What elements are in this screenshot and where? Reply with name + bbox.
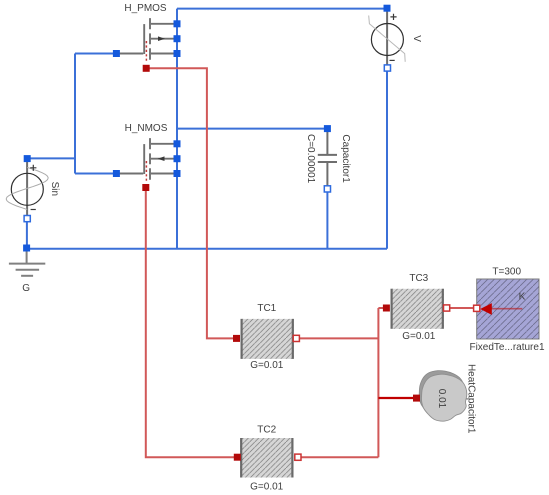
node sin minus pin (open): [24, 216, 30, 222]
node sin plus pin: [24, 155, 31, 162]
fixed temperature FixedTemperature1: [469, 267, 544, 353]
svg-text:FixedTe...rature1: FixedTe...rature1: [469, 342, 544, 353]
node nmos source pin: [174, 170, 181, 177]
wire TC2 out: [301, 456, 379, 458]
svg-text:V: V: [411, 35, 422, 42]
v ramp line: [369, 16, 406, 62]
pmos heat dashed line: [145, 41, 147, 63]
wire pmos heat to TC1: [146, 68, 234, 338]
thermal conductor TC1: [241, 303, 294, 371]
nmos heat dashed line: [145, 161, 147, 183]
svg-text:HeatCapacitor1: HeatCapacitor1: [465, 364, 476, 434]
node nmos drain pin: [174, 140, 181, 147]
wire to pmos gate: [75, 53, 114, 55]
svg-text:G=0.01: G=0.01: [402, 331, 436, 342]
sin plus sign: [30, 165, 36, 171]
wire capacitor branch: [177, 128, 327, 130]
node nmos heatport pin: [142, 184, 149, 191]
sin minus sign: [31, 209, 36, 211]
source Sin (sine voltage): [6, 160, 60, 216]
node pmos heatport pin: [143, 65, 150, 72]
transistor H_PMOS: [116, 18, 173, 60]
node V minus pin (open): [384, 65, 390, 71]
source V (constant voltage): [369, 10, 422, 65]
ground G: [9, 250, 45, 276]
sin wave: [6, 167, 48, 209]
svg-text:G=0.01: G=0.01: [250, 482, 284, 493]
wire to TC3: [378, 307, 384, 309]
svg-text:K: K: [519, 292, 526, 303]
sin stem: [26, 160, 28, 216]
svg-text:C=0.00001: C=0.00001: [305, 134, 316, 184]
svg-text:T=300: T=300: [492, 267, 521, 278]
svg-text:G: G: [22, 283, 30, 294]
wire to HeatCapacitor1: [378, 397, 414, 399]
wire sin minus to ground: [26, 221, 28, 249]
wire to nmos gate: [75, 173, 114, 175]
node V plus pin: [384, 5, 391, 12]
svg-text:TC3: TC3: [409, 273, 428, 284]
v stem: [386, 10, 388, 65]
node TC1 port_a pin: [233, 335, 240, 342]
node pmos source pin: [174, 50, 181, 57]
node capacitor top pin: [324, 125, 331, 132]
blob shading: [419, 371, 464, 418]
wire gate column: [74, 54, 76, 174]
wire sin to gates: [27, 157, 75, 159]
blob body: [421, 374, 466, 421]
node pmos gate pin: [113, 50, 120, 57]
node nmos gate pin: [113, 170, 120, 177]
v minus sign: [390, 59, 395, 61]
nmos bulk arrow: [158, 156, 165, 161]
node TC3 port_b pin (open): [444, 305, 450, 311]
svg-text:TC1: TC1: [257, 303, 276, 314]
wire ground rail: [27, 248, 387, 250]
node TC2 port_b pin (open): [295, 454, 301, 460]
wire capacitor bottom: [326, 192, 328, 249]
wire V source bottom: [386, 72, 388, 249]
svg-text:Capacitor1: Capacitor1: [340, 134, 351, 183]
svg-text:G=0.01: G=0.01: [250, 360, 284, 371]
thermal conductor TC2: [240, 424, 293, 492]
svg-text:0.01: 0.01: [436, 389, 447, 409]
wire top rail VDD: [177, 8, 387, 10]
wire TC3 to FixedTemperature1: [450, 307, 475, 309]
node TC2 port_a pin: [234, 454, 241, 461]
transistor H_NMOS: [116, 138, 173, 180]
thermal conductor TC3: [391, 273, 444, 342]
wire TC1 out: [299, 337, 378, 339]
node pmos bulk pin: [174, 35, 181, 42]
wire thermal bus vertical: [377, 308, 379, 457]
node TC3 port_a pin: [383, 305, 390, 312]
svg-text:TC2: TC2: [257, 424, 276, 435]
wire nmos heat to TC2: [146, 190, 235, 457]
v plus sign: [390, 14, 396, 20]
node TC1 port_b pin (open): [293, 335, 299, 341]
v circle: [371, 24, 403, 56]
node capacitor bottom pin (open): [324, 186, 330, 192]
heat capacitor HeatCapacitor1: [419, 364, 476, 434]
capacitor Capacitor1: [318, 131, 337, 186]
node heatcapacitor port pin: [413, 395, 420, 402]
wire pmos-nmos column: [176, 9, 178, 249]
svg-text:H_PMOS: H_PMOS: [124, 3, 167, 14]
node ground junction: [23, 245, 30, 252]
sin circle: [11, 173, 43, 205]
svg-text:Sin: Sin: [49, 182, 60, 196]
node nmos bulk pin: [174, 155, 181, 162]
node pmos drain pin: [174, 20, 181, 27]
svg-text:H_NMOS: H_NMOS: [125, 123, 168, 134]
node fixedtemp port pin (open): [474, 305, 480, 311]
pmos bulk arrow: [158, 36, 165, 41]
fixedtemp arrow: [492, 308, 523, 310]
